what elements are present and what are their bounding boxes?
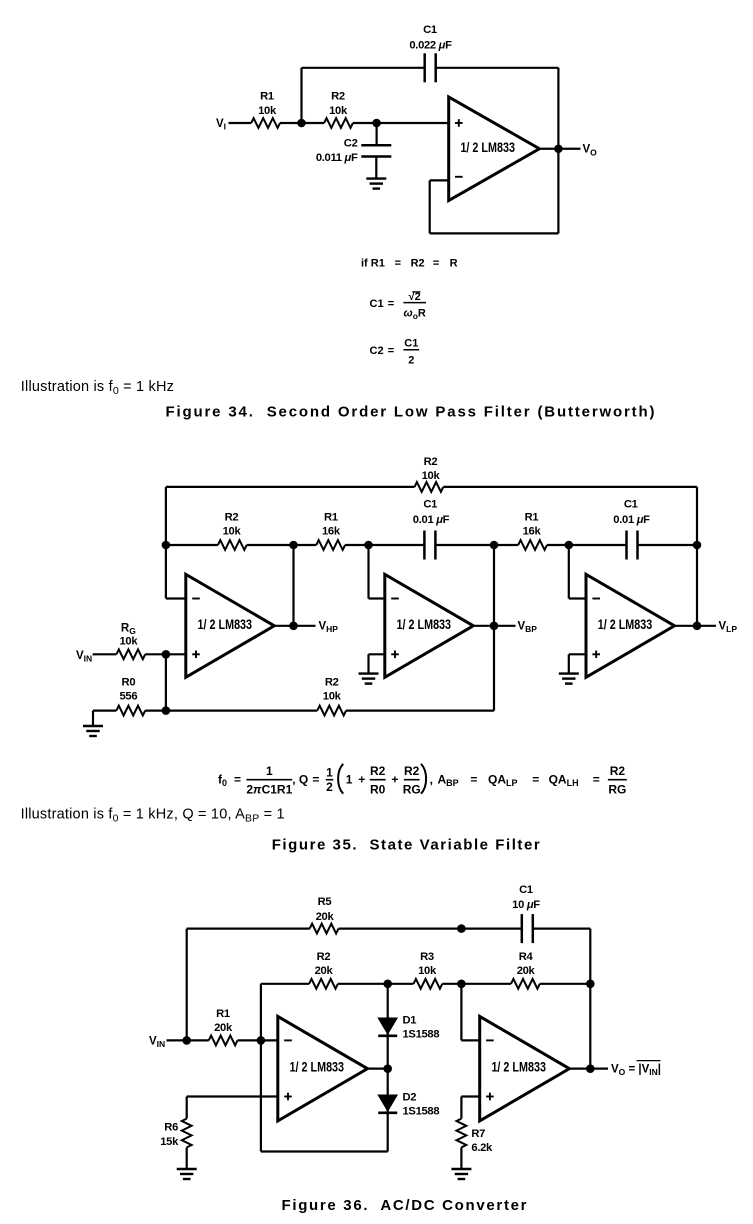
svg-text:2: 2 [326, 780, 333, 794]
node junction right rail middle [693, 541, 702, 550]
svg-text:R1: R1 [324, 511, 338, 523]
op-amp U4 - glyph [592, 598, 600, 600]
resistor R2 20k fig36 [309, 979, 338, 989]
svg-text:R2: R2 [325, 677, 339, 689]
node Vo junction fig36 [586, 1064, 595, 1073]
ground R6 [177, 1168, 197, 1170]
wire op3 output [675, 625, 717, 627]
wire R1 to node A [280, 122, 324, 124]
equation C1 sqrt overline [412, 291, 420, 293]
wire op3 + input [569, 653, 586, 655]
wire Vin to RG [93, 653, 117, 655]
wire VBP down to bottom rail [493, 626, 495, 711]
svg-text:=: = [395, 257, 401, 269]
wire op3 - input [569, 597, 586, 599]
wire bottom rail seg3 [346, 709, 494, 711]
ground op3 + [559, 672, 579, 674]
wire op2 output fig36 [569, 1068, 608, 1070]
wire op1 output to diode node [368, 1068, 388, 1070]
resistor R4 20k [511, 979, 540, 989]
svg-text:Figure 35. State Variable Fil: Figure 35. State Variable Filter [272, 837, 540, 854]
svg-text:=: = [532, 772, 539, 786]
svg-text:R0: R0 [370, 782, 386, 796]
wire op3 + down to ground [568, 654, 570, 673]
node junction bottom rail [162, 706, 171, 715]
wire fig35 middle rail seg3 [345, 544, 424, 546]
op-amp U1 - input glyph [455, 176, 463, 178]
wire node A up to C1 [300, 68, 302, 123]
svg-text:1: 1 [326, 765, 333, 779]
wire R1 to op1 - input [238, 1039, 278, 1041]
wire op2 + down to ground [367, 654, 369, 673]
svg-text:,: , [430, 772, 433, 786]
op-amp U4 1/2 LM833 third [586, 574, 675, 677]
svg-text:10 μF: 10 μF [512, 899, 540, 911]
wire op1 output [274, 625, 315, 627]
svg-text:1/ 2 LM833: 1/ 2 LM833 [397, 617, 452, 632]
resistor R1 10k [251, 118, 280, 128]
svg-text:R2: R2 [404, 764, 420, 778]
svg-text:6.2k: 6.2k [471, 1142, 493, 1154]
svg-text:R1: R1 [216, 1008, 230, 1020]
svg-text:QALH: QALH [549, 772, 579, 788]
wire fig36 second rail seg3 [442, 983, 511, 985]
node junction second rail mid [457, 980, 466, 989]
wire op2 + input [369, 653, 385, 655]
svg-text:R2: R2 [424, 456, 438, 468]
wire op2 - input fig36 [461, 1039, 479, 1041]
wire op-amp output [539, 148, 580, 150]
node junction A diodes top [383, 980, 392, 989]
node Vo junction [554, 144, 563, 153]
op-amp U1 1/2 LM833 [449, 97, 540, 201]
svg-text:1/ 2 LM833: 1/ 2 LM833 [598, 617, 653, 632]
svg-text:R0: R0 [122, 677, 136, 689]
formula fraction bar R2/RG final [608, 779, 627, 781]
svg-text:2πC1R1: 2πC1R1 [246, 782, 292, 796]
svg-text:=: = [388, 345, 394, 357]
op-amp U2 1/2 LM833 first [186, 574, 274, 677]
svg-text:20k: 20k [214, 1022, 233, 1034]
svg-text:, Q: , Q [292, 772, 308, 786]
svg-text:VO = |VIN|: VO = |VIN| [611, 1064, 661, 1078]
wire VBP up to middle rail [493, 545, 495, 626]
wire fig36 top rail mid [339, 927, 522, 929]
svg-text:556: 556 [120, 691, 138, 703]
svg-text:R5: R5 [318, 896, 332, 908]
resistor R0 556 [116, 706, 145, 716]
svg-text:=: = [470, 772, 477, 786]
wire fig35 middle rail seg5 [547, 544, 626, 546]
svg-text:1/ 2 LM833: 1/ 2 LM833 [491, 1060, 546, 1075]
svg-text:20k: 20k [517, 965, 536, 977]
svg-text:=: = [312, 772, 319, 786]
wire right rail down [557, 68, 559, 234]
op-amp U3 1/2 LM833 second [385, 574, 474, 677]
svg-text:10k: 10k [418, 965, 437, 977]
resistor R2 10k top feedback [415, 482, 444, 492]
wire right rail down [589, 929, 591, 1069]
op-amp U2 + glyph [192, 653, 200, 655]
wire bottom rail seg2 [145, 709, 317, 711]
svg-text:C2: C2 [370, 345, 384, 357]
wire fig35 middle rail seg1 [166, 544, 218, 546]
svg-text:R2: R2 [225, 511, 239, 523]
node junction second rail right [586, 980, 595, 989]
svg-text:Figure 34. Second Order Low P: Figure 34. Second Order Low Pass Filter … [166, 403, 655, 420]
op-amp U5 - glyph [284, 1039, 292, 1041]
svg-text:0.01 μF: 0.01 μF [413, 514, 450, 526]
formula fraction bar half [326, 779, 334, 781]
svg-text:0.011 μF: 0.011 μF [316, 152, 358, 164]
svg-text:10k: 10k [329, 105, 348, 117]
svg-text:10k: 10k [223, 526, 242, 538]
formula fraction bar R2/RG [404, 779, 420, 781]
svg-text:R4: R4 [519, 951, 534, 963]
op-amp U5 1/2 LM833 first fig36 [278, 1016, 368, 1121]
svg-text:C1: C1 [519, 884, 533, 896]
svg-text:20k: 20k [316, 911, 335, 923]
wire fig36 second rail seg1 [261, 983, 309, 985]
svg-text:C1: C1 [423, 499, 437, 511]
op-amp U2 - glyph [192, 598, 200, 600]
svg-text:1: 1 [346, 772, 353, 786]
wire op2 + input fig36 [461, 1095, 479, 1097]
wire right rail down [696, 487, 698, 626]
wire Vin junction up to top rail [186, 929, 188, 1041]
ground below C2 [366, 177, 386, 179]
svg-text:R2: R2 [411, 257, 425, 269]
svg-text:R3: R3 [420, 951, 434, 963]
ground R0 [83, 725, 103, 727]
resistor R7 6.2k [457, 1119, 467, 1148]
svg-text:D2: D2 [403, 1092, 417, 1104]
formula fraction bar 1 [246, 779, 292, 781]
wire top left to C1 [302, 67, 425, 69]
wire op1 + input fig36 [187, 1095, 278, 1097]
svg-text:D1: D1 [403, 1014, 417, 1026]
svg-text:if R1: if R1 [361, 257, 385, 269]
resistor R1 20k fig36 [209, 1036, 238, 1046]
capacitor C1 0.01uF first [423, 531, 426, 560]
wire Vi to R1 [229, 122, 252, 124]
svg-text:=: = [388, 298, 394, 310]
wire fig36 second rail seg2 [338, 983, 414, 985]
svg-text:Illustration is f0 = 1 kHz, Q: Illustration is f0 = 1 kHz, Q = 10, ABP … [21, 807, 285, 825]
ground R7 [451, 1168, 471, 1170]
diode D1 1S1588 [378, 1018, 397, 1034]
svg-text:16k: 16k [523, 526, 542, 538]
node junction op2 - middle rail [364, 541, 373, 550]
op-amp U4 + glyph [592, 653, 600, 655]
svg-text:QALP: QALP [488, 772, 518, 788]
svg-text:10k: 10k [323, 691, 342, 703]
svg-text:C1: C1 [624, 499, 638, 511]
svg-text:R6: R6 [164, 1121, 178, 1133]
op-amp U6 - glyph [486, 1039, 494, 1041]
svg-text:=: = [234, 772, 241, 786]
svg-text:+: + [358, 772, 365, 786]
svg-text:RG: RG [403, 782, 421, 796]
resistor R3 10k [414, 979, 443, 989]
equation C2 fraction bar [403, 349, 419, 351]
svg-text:VLP: VLP [719, 621, 738, 635]
op-amp U3 + glyph [391, 653, 399, 655]
resistor R5 20k [310, 924, 339, 934]
capacitor C1 0.022uF [423, 53, 426, 82]
wire op2 - vertical [367, 545, 369, 599]
node junction op3 - middle rail [565, 541, 574, 550]
svg-text:+: + [391, 772, 398, 786]
ground op2 + [359, 672, 379, 674]
resistor RG 10k [116, 649, 145, 659]
capacitor C1 10uF [521, 914, 524, 943]
svg-text:RG: RG [608, 782, 626, 796]
svg-text:10k: 10k [422, 470, 441, 482]
svg-text:R1: R1 [260, 91, 274, 103]
wire fig35 top rail right [443, 486, 697, 488]
diode D2 1S1588 [378, 1095, 397, 1111]
svg-text:R7: R7 [471, 1128, 485, 1140]
node junction diode mid [383, 1064, 392, 1073]
resistor R2 10k bottom [317, 706, 346, 716]
wire junction down to bottom rail [165, 654, 167, 710]
wire - feedback from op-amp [430, 179, 449, 181]
formula close paren [421, 764, 426, 794]
svg-text:15k: 15k [160, 1136, 179, 1148]
wire feedback bottom rail [261, 1150, 388, 1152]
wire Vin to R1 fig36 [167, 1039, 209, 1041]
op-amp U6 1/2 LM833 second fig36 [480, 1016, 570, 1121]
svg-text:VBP: VBP [518, 621, 538, 635]
wire C1 to right rail [436, 67, 559, 69]
svg-text:R2: R2 [610, 764, 626, 778]
resistor R2 10k [324, 118, 353, 128]
wire ground stub R0 [92, 711, 94, 726]
wire left rail down to op1 - [165, 487, 167, 599]
svg-text:√2: √2 [409, 291, 421, 303]
wire fig35 top rail left [166, 486, 415, 488]
wire feedback left vertical [260, 984, 262, 1152]
op-amp U3 - glyph [391, 598, 399, 600]
node VBP junction [490, 622, 499, 631]
svg-text:2: 2 [408, 354, 414, 366]
wire R2 to node B [353, 122, 377, 124]
node junction op1 + input [162, 650, 171, 659]
node A junction [297, 119, 306, 128]
node B junction [372, 119, 381, 128]
svg-text:R2: R2 [331, 91, 345, 103]
svg-text:R2: R2 [370, 764, 386, 778]
node junction feedback - input [257, 1036, 266, 1045]
svg-text:R: R [450, 257, 458, 269]
svg-text:0.022 μF: 0.022 μF [409, 40, 452, 52]
label Vo overline [637, 1060, 661, 1062]
svg-text:Figure 36. AC/DC Converter: Figure 36. AC/DC Converter [282, 1197, 527, 1214]
wire fig35 middle rail seg6 [638, 544, 697, 546]
wire op3 - vertical [568, 545, 570, 599]
svg-text:VIN: VIN [149, 1035, 165, 1049]
node junction Vin rail [182, 1036, 191, 1045]
svg-text:VI: VI [216, 118, 226, 132]
svg-text:16k: 16k [322, 526, 341, 538]
svg-text:C1: C1 [423, 24, 437, 36]
equation C1 fraction bar [403, 302, 426, 304]
wire op1 - input [166, 597, 186, 599]
svg-text:ωoR: ωoR [404, 307, 426, 320]
node junction VHP middle rail [289, 541, 298, 550]
wire R7 to ground [460, 1147, 462, 1169]
node VHP junction [289, 622, 298, 631]
wire op2 output [475, 625, 516, 627]
wire node B to op-amp + input [377, 122, 449, 124]
op-amp U5 + glyph [284, 1096, 292, 1098]
wire op2 + down to R7 [460, 1097, 462, 1119]
svg-text:20k: 20k [315, 965, 334, 977]
svg-text:R2: R2 [317, 951, 331, 963]
svg-text:VIN: VIN [76, 650, 92, 664]
svg-text:Illustration is f0 = 1 kHz: Illustration is f0 = 1 kHz [21, 379, 174, 397]
wire feedback bottom [430, 232, 559, 234]
node junction VBP middle rail [490, 541, 499, 550]
wire op2 - vertical fig36 [460, 984, 462, 1041]
wire op2 - input [369, 597, 385, 599]
capacitor C1 0.01uF second [625, 531, 628, 560]
svg-text:VO: VO [583, 144, 598, 158]
svg-text:1S1588: 1S1588 [403, 1106, 440, 1118]
node VLP junction [693, 622, 702, 631]
resistor R2 10k middle [218, 540, 247, 550]
svg-text:1/ 2 LM833: 1/ 2 LM833 [290, 1060, 345, 1075]
svg-text:R1: R1 [525, 511, 539, 523]
wire C1 to right rail [533, 927, 591, 929]
capacitor C2 0.011uF wire from node B [376, 123, 378, 145]
resistor R6 15k [182, 1119, 192, 1148]
svg-text:1/ 2 LM833: 1/ 2 LM833 [460, 140, 515, 155]
wire RG to op1 + [145, 653, 186, 655]
op-amp U6 + glyph [486, 1096, 494, 1098]
svg-text:=: = [593, 772, 600, 786]
wire fig35 middle rail seg2 [247, 544, 317, 546]
node junction top rail [457, 924, 466, 933]
wire fig35 middle rail seg4 [436, 544, 519, 546]
svg-text:RG: RG [121, 622, 136, 636]
wire bottom rail seg1 [93, 709, 116, 711]
wire fig36 top rail left [187, 927, 310, 929]
svg-text:=: = [433, 257, 439, 269]
wire diode vertical [387, 984, 389, 1152]
wire fig36 second rail seg4 [540, 983, 591, 985]
wire feedback left down [429, 180, 431, 233]
svg-text:1: 1 [266, 764, 273, 778]
wire R6 to ground [186, 1147, 188, 1169]
svg-text:C2: C2 [344, 138, 358, 150]
svg-text:ABP: ABP [438, 772, 459, 788]
svg-text:f0: f0 [218, 772, 227, 788]
resistor R1 16k second [518, 540, 547, 550]
node junction left rail middle [162, 541, 171, 550]
svg-text:10k: 10k [120, 636, 139, 648]
svg-text:10k: 10k [258, 105, 277, 117]
svg-text:1/ 2 LM833: 1/ 2 LM833 [198, 617, 253, 632]
capacitor C2 0.011uF [361, 144, 391, 147]
resistor R1 16k first [316, 540, 345, 550]
wire C2 to ground [375, 157, 377, 179]
svg-text:1S1588: 1S1588 [403, 1029, 440, 1041]
wire VHP up to middle rail [292, 545, 294, 626]
formula open paren [338, 764, 343, 794]
formula fraction bar R2/R0 [370, 779, 386, 781]
svg-text:C1: C1 [404, 337, 418, 349]
wire op1 + down to R6 [186, 1097, 188, 1119]
op-amp U1 + input glyph [455, 122, 463, 124]
svg-text:VHP: VHP [319, 621, 339, 635]
svg-text:C1: C1 [370, 298, 384, 310]
svg-text:0.01 μF: 0.01 μF [613, 514, 650, 526]
